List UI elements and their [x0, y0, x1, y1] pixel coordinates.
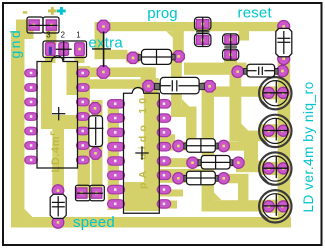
pad LED2 left [263, 125, 274, 136]
svg-text:pA uido 10: pA uido 10 [137, 94, 149, 189]
wire D2 column [92, 100, 103, 198]
IC1 cross [52, 107, 65, 120]
LED D3 outline [259, 77, 291, 109]
pad IC2 pin column left [108, 100, 125, 108]
wire LED4 elbow [202, 200, 267, 211]
pad J2-3 blue mark [49, 47, 52, 55]
wire IC1 right column [78, 66, 91, 198]
wire V1 down from top band through extra resistor right pad [173, 29, 184, 57]
pad J3-A square [77, 188, 87, 198]
pad C1 top (reset) [278, 21, 290, 33]
pad R1 left [173, 140, 184, 151]
pad LED3 left [263, 163, 274, 174]
resistor R-extra outline [138, 49, 175, 64]
svg-text:LD.4m⌜: LD.4m⌜ [50, 130, 62, 172]
wire LED column band [278, 53, 291, 223]
wire LED2 elbow [230, 131, 267, 142]
svg-text:prog: prog [147, 5, 177, 22]
svg-text:LD ver.4m by niq_ro: LD ver.4m by niq_ro [301, 81, 316, 212]
wire extra band [95, 50, 128, 59]
pad extra resistor right [173, 51, 184, 62]
pad R1 right [218, 140, 229, 151]
capacitor C-mid outline [155, 77, 205, 93]
svg-text:3: 3 [46, 31, 50, 40]
pad IC1 pin column left [25, 69, 38, 77]
wire top horizontal band (prog/reset) [95, 22, 280, 31]
wire J2 pads into IC1 [45, 56, 56, 63]
IC2 outline [124, 87, 160, 213]
pad LED1 right [278, 87, 289, 98]
pad J2-2 [59, 43, 69, 56]
pad R-a top [196, 20, 209, 29]
wire left vertical band [16, 20, 28, 35]
label plus yellow [48, 7, 57, 15]
wire link silkscreen vertical [103, 32, 105, 68]
resistor R-b outline [223, 34, 239, 60]
wire J1 right pad down to J2 [46, 30, 57, 45]
capacitor C1 outline (reset) [276, 28, 292, 56]
pad C2 right [277, 65, 289, 77]
wire band P [78, 67, 152, 77]
pad J2-3 [46, 43, 56, 56]
wire band Q [84, 79, 146, 89]
wire link cross mark [92, 48, 111, 50]
pad R2 right [233, 157, 244, 168]
wire R-b top feeder [239, 24, 249, 41]
pad C2 left [232, 66, 244, 78]
pad R-b top [225, 36, 237, 44]
wire IC1 interior [41, 61, 52, 125]
resistor R3 outline [184, 171, 218, 185]
IC1 outline [37, 56, 78, 168]
pad R3 left [173, 173, 184, 184]
pad R-a bottom [196, 36, 209, 45]
label minus [23, 11, 27, 14]
svg-text:1: 1 [76, 31, 80, 40]
resistor R1 outline [184, 139, 218, 153]
pad C4 top [52, 185, 64, 197]
pad LED3 right [278, 163, 289, 174]
pad extra resistor left [127, 52, 138, 63]
IC2 cross [135, 146, 148, 159]
LED D6 outline [259, 190, 291, 222]
wire LED2-3 mid patch [244, 135, 258, 172]
svg-text:reset: reset [238, 5, 273, 22]
wire IC2 left column [108, 100, 119, 210]
resistor R2 outline [198, 156, 233, 170]
svg-text:speed: speed [73, 214, 115, 231]
connector J1 outline [27, 17, 59, 33]
pad via top wire left [97, 20, 109, 32]
wire R1 right up [228, 141, 249, 150]
pad D2 bottom [90, 148, 101, 159]
pad R2 left [187, 157, 198, 168]
pad C-mid right [204, 81, 215, 92]
wire bottom horizontal band [11, 217, 291, 228]
capacitor C2 outline [244, 64, 278, 77]
pad D2 top [89, 103, 100, 114]
pad LED1 left [263, 87, 274, 98]
pad J1-1 square [29, 20, 39, 30]
pad R-b bottom [225, 51, 237, 59]
wire J1 left pad elbow [25, 28, 34, 39]
pad C1 bottom [278, 53, 290, 65]
wire LED3 feeder [236, 161, 267, 173]
LED D4 outline [259, 115, 291, 147]
wire R3 right down [228, 174, 249, 184]
svg-text:2: 2 [61, 31, 65, 40]
connector J2 pin numbers [46, 31, 80, 40]
pad J1-2 square [46, 20, 56, 30]
wire central vertical band [202, 82, 214, 204]
wire resistor feeders left [156, 142, 186, 151]
pad C-mid left [143, 80, 154, 91]
pad LED4 left [263, 201, 274, 212]
capacitor C4 outline (bottom left) [50, 194, 66, 218]
connector J2 outline [43, 41, 87, 61]
wire LED pad patches [260, 86, 279, 99]
diode D2 outline [88, 116, 104, 147]
wire band C vertical [230, 74, 242, 141]
wire IC2 interior [141, 67, 156, 80]
IC pads (capsules) [25, 69, 171, 208]
pad J2-1 [75, 43, 85, 56]
pad via wire bottom [97, 66, 109, 78]
pad J3-B square [92, 188, 102, 198]
pad R3 right [218, 173, 229, 184]
svg-text:gnd: gnd [7, 28, 23, 59]
wire J2 pad1 vertical [95, 26, 105, 55]
LED D5 outline [259, 152, 291, 184]
wire LED1 feeder [205, 86, 262, 96]
pad LED4 right [278, 201, 289, 212]
connector J3 outline [76, 185, 105, 201]
pad center dots [33, 23, 285, 224]
pad IC2 pin column right [157, 100, 171, 108]
pad IC1 pin column right [77, 69, 90, 77]
pad C4 bottom [52, 217, 64, 229]
wire band to R-b bottom [184, 63, 247, 75]
resistor R-a outline [195, 17, 211, 46]
label plus cyan [57, 7, 66, 15]
pad LED2 right [278, 125, 289, 136]
